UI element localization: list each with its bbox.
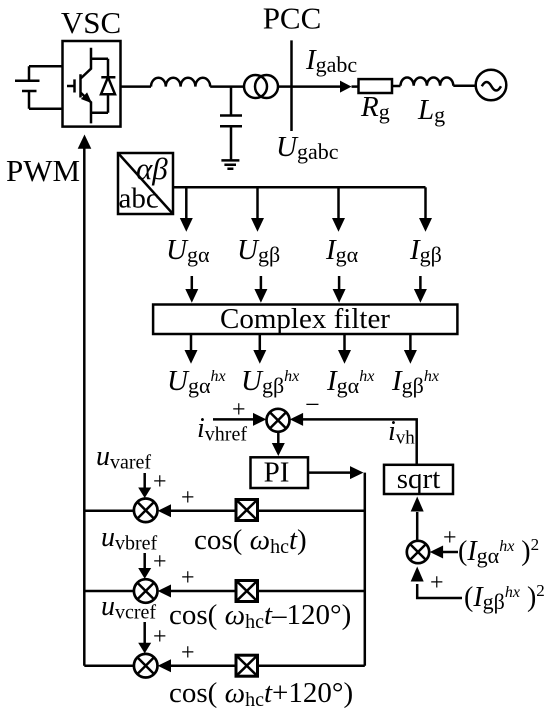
svg-text:PI: PI — [264, 457, 290, 489]
sqrt box — [384, 465, 453, 494]
grid current arrow — [292, 85, 343, 88]
svg-text:Complex filter: Complex filter — [220, 303, 390, 335]
svg-text:PCC: PCC — [263, 1, 322, 36]
freewheeling diode D1 — [101, 59, 115, 113]
wire multiplier c to distribution line — [258, 664, 365, 667]
svg-text:+: + — [181, 485, 195, 511]
svg-text:sqrt: sqrt — [397, 463, 441, 495]
abc to alpha-beta transform block — [118, 153, 173, 214]
summer 2 — [407, 541, 429, 563]
arrow i_vhref into summer 1 — [213, 418, 254, 421]
PI controller box — [251, 457, 309, 488]
Complex filter box — [153, 305, 457, 335]
PCC bus bar — [290, 40, 293, 131]
svg-text:+: + — [181, 565, 195, 591]
AC grid source — [476, 70, 507, 101]
filter input arrow 1 — [191, 276, 194, 290]
svg-text:(Igβhx )2: (Igβhx )2 — [464, 581, 545, 614]
svg-text:−: − — [305, 390, 320, 419]
distribution line down — [364, 473, 367, 666]
svg-text:+: + — [153, 624, 167, 650]
filter output arrow 1 — [190, 334, 193, 351]
svg-text:PWM: PWM — [6, 153, 80, 188]
wire resistor to Lg — [392, 85, 401, 88]
wire inductor to transformer — [210, 85, 244, 88]
arrow u_vbref down into summer b — [143, 553, 146, 569]
filter output arrow 4 — [409, 334, 412, 351]
svg-text:+: + — [153, 549, 167, 575]
filter output arrow 2 — [259, 334, 262, 351]
arrow summer 2 to sqrt — [416, 512, 419, 541]
battery (DC source) — [15, 66, 63, 109]
distribution bus from transform block — [173, 186, 426, 189]
svg-text:abc: abc — [119, 183, 159, 215]
IGBT Q1 — [67, 48, 92, 124]
IGBT top/bottom connection wires — [91, 59, 108, 113]
svg-text:+: + — [443, 525, 457, 551]
PWM feedback line with up arrow to VSC — [83, 148, 86, 666]
wire multiplier a to distribution line — [258, 510, 365, 513]
multiplier b — [236, 581, 258, 602]
svg-text:+: + — [153, 469, 167, 495]
filter inductor — [151, 78, 210, 87]
multiplier a — [236, 500, 258, 521]
wire summer c to PWM bus — [84, 664, 134, 667]
wire multiplier b to distribution line — [258, 590, 365, 593]
wire multiplier b to summer b — [171, 590, 236, 593]
summer a — [134, 499, 158, 523]
filter output arrow 3 — [343, 334, 346, 351]
svg-text:+: + — [181, 640, 195, 666]
wire multiplier c to summer c — [171, 664, 236, 667]
branch arrow 3 — [337, 187, 340, 219]
arrow u_vcref down into summer c — [143, 622, 146, 644]
ground — [221, 160, 239, 168]
filter input arrow 2 — [260, 276, 263, 290]
resistor Rg — [359, 79, 393, 93]
svg-text:VSC: VSC — [61, 5, 121, 40]
wire multiplier a to summer a — [171, 510, 236, 513]
VSC converter box — [63, 41, 121, 127]
svg-text:+: + — [430, 570, 444, 596]
i_vh feedback wire from sqrt to summer 1 — [303, 419, 417, 464]
svg-text:αβ: αβ — [136, 151, 168, 186]
branch arrow 2 — [256, 187, 259, 219]
branch arrow 4 — [424, 187, 427, 219]
filter input arrow 3 — [338, 276, 341, 290]
svg-text:cos( ωhct): cos( ωhct) — [194, 524, 307, 558]
arrow summer 1 to PI — [277, 432, 280, 444]
wire VSC output — [121, 85, 152, 88]
transformer — [244, 75, 267, 98]
svg-text:(Igαhx )2: (Igαhx )2 — [458, 535, 539, 568]
shunt capacitor — [220, 87, 242, 161]
grid inductor Lg — [401, 77, 454, 85]
arrow u_varef down into summer a — [143, 473, 146, 489]
wire summer b to PWM bus — [84, 590, 134, 593]
wire Lg to grid source — [453, 85, 475, 88]
wire summer a to PWM bus — [84, 510, 134, 513]
PI output arrow to distribution line — [308, 471, 351, 474]
summer c — [134, 654, 158, 678]
summer 1 (i_vhref minus i_vh) — [267, 409, 290, 432]
branch arrow 1 — [185, 187, 188, 219]
arrow from (Iga hx)^2 into summer 2 — [443, 551, 458, 554]
wire transformer to PCC bus — [278, 85, 292, 88]
summer b — [134, 579, 158, 603]
multiplier c — [236, 655, 258, 676]
filter input arrow 4 — [419, 276, 422, 290]
elbow from (Igb hx)^2 into summer 2 — [417, 584, 462, 598]
